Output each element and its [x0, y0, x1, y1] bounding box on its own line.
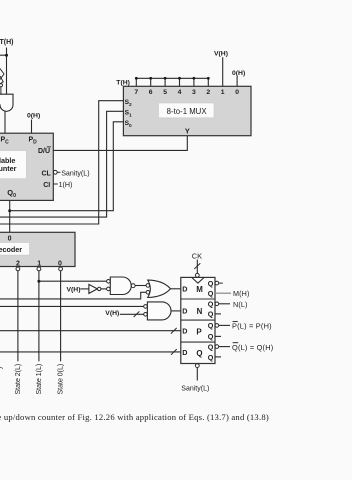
wire sanity: [196, 368, 198, 381]
node Sanity(L) label: [181, 386, 209, 393]
wire T(H) bus to pins 7-2: [135, 78, 208, 86]
wire S1 select (goes off left): [0, 111, 123, 217]
wire from left to D of Q with slash: [0, 349, 181, 355]
bubble on Q upper Q and wire to Q(L)=Q(H): [215, 343, 273, 352]
decoder output pin 2: [16, 260, 20, 267]
node dots on T bus: [135, 77, 210, 80]
wire NAND G2 to OR G3: [135, 285, 146, 287]
flip-flop stack box: [181, 277, 215, 363]
pin S0: [125, 120, 132, 129]
pin Q of M lower: [208, 289, 214, 298]
wire M lower Q to M(H): [215, 289, 250, 298]
svg-text:P: P: [196, 328, 201, 337]
wire S2 select (goes off left): [0, 101, 123, 224]
node junction dot on T(H) wire: [5, 54, 8, 57]
wire CK with slash: [194, 260, 200, 274]
OR gate G3 (bubbled inputs): [146, 280, 170, 297]
pin D of P: [182, 327, 187, 336]
svg-text:M: M: [196, 285, 203, 294]
svg-text:Sanity(L): Sanity(L): [181, 386, 209, 393]
flip-flop M label: [196, 285, 203, 294]
pin 5: [163, 89, 167, 96]
node V(H) label at inverter: [67, 287, 81, 294]
pin D of M: [182, 284, 187, 293]
wire S0 select to Q0 junction: [10, 122, 124, 211]
wire P lower Q stub: [215, 335, 221, 337]
pin 4: [178, 89, 182, 96]
bubble on CL: [53, 170, 57, 174]
svg-text:Q: Q: [208, 353, 214, 362]
svg-text:D: D: [182, 284, 187, 293]
pin 0: [235, 89, 239, 96]
node junction dot Q0/S0: [8, 209, 11, 212]
node 0(H) label: [27, 113, 40, 120]
wire Q lower Q stub: [215, 356, 221, 358]
pin Q of Q lower: [208, 353, 214, 362]
wire state1 to NAND G2 upper input: [39, 280, 107, 282]
pin D/U: [38, 147, 51, 155]
wire 0(H) to pin 0: [236, 76, 238, 86]
wire state 0(L): [60, 271, 62, 361]
svg-text:Q: Q: [208, 342, 214, 351]
node 0(H) label at mux: [232, 70, 245, 77]
counter white label area: [0, 151, 26, 179]
pin CL: [42, 170, 52, 177]
clipped gate fragment at left edge: [0, 69, 4, 87]
node clipped label fragment at left edge: [0, 367, 4, 369]
mux U2 box 8-to-1 MUX: [123, 86, 251, 135]
pin S2: [125, 99, 132, 108]
bubble on M upper Q: [215, 281, 223, 285]
decoder U3 box (clipped at left): [0, 232, 75, 266]
svg-text:CK: CK: [192, 252, 202, 261]
pin Q0: [7, 188, 16, 199]
pin Q of P upper: [208, 321, 214, 330]
wire G4 output to D of N: [171, 310, 181, 312]
node 1(H) at CI: [53, 181, 72, 189]
AND gate G4 (bubbled inputs): [144, 302, 171, 320]
svg-text:Q: Q: [208, 332, 214, 341]
svg-text:N(L): N(L): [233, 300, 248, 309]
wire V(H) to pin 1: [222, 57, 224, 86]
pin PD: [29, 137, 38, 146]
svg-text:D: D: [182, 306, 187, 315]
mux white label: [159, 103, 215, 118]
decoder output pin 0: [58, 260, 62, 267]
wire state 1(L): [38, 271, 40, 361]
wire from left to G3 lower input: [0, 292, 146, 299]
bubble sanity reset input: [195, 364, 199, 368]
svg-text:P(L) = P(H): P(L) = P(H): [232, 322, 272, 331]
svg-text:D: D: [182, 327, 187, 336]
wire Y output to counter D/U: [53, 136, 187, 151]
wire N lower Q stub: [215, 313, 221, 315]
wire from left to D of P with slash: [0, 328, 181, 334]
wire G3 output to D of M: [170, 288, 181, 290]
pin Q of Q upper: [208, 342, 214, 351]
svg-text:Q: Q: [208, 310, 214, 319]
pin 1: [221, 89, 225, 96]
node State 0(L) label: [57, 364, 64, 395]
svg-text:Q: Q: [208, 300, 214, 309]
pin Q of P lower: [208, 332, 214, 341]
wire V(H) to G4 lower input with slash: [120, 311, 144, 317]
pin 7: [134, 89, 138, 96]
pin Q of M upper: [208, 279, 214, 288]
svg-text:N: N: [197, 307, 203, 316]
flip-flop N label: [197, 307, 203, 316]
node CK label: [192, 252, 202, 261]
AND gate G1 (clipped at left): [0, 87, 13, 112]
wire from left to G4 upper input: [0, 305, 144, 307]
decoder input pin 0: [8, 235, 12, 242]
svg-text:Q: Q: [208, 321, 214, 330]
wire state 2(L): [17, 271, 19, 361]
svg-text:Q: Q: [208, 289, 214, 298]
node T(H) label at mux: [116, 79, 130, 86]
wire V(H) to inverter: [80, 288, 89, 290]
wire inverter to NAND G2: [101, 288, 107, 290]
node Sanity(L) at CL: [57, 169, 89, 177]
pin 2: [206, 89, 210, 96]
NAND gate G2: [107, 277, 136, 295]
flip-flop P label: [196, 328, 201, 337]
node State 1(L) label: [36, 364, 43, 395]
pin D of Q: [182, 348, 187, 357]
clock chevron indicator: [192, 278, 204, 284]
svg-text:Q: Q: [196, 349, 202, 358]
pin Y: [185, 127, 190, 136]
figure caption: [0, 412, 269, 422]
node T(H) label top-left: [0, 39, 14, 46]
svg-text:D: D: [182, 348, 187, 357]
wire Q0 to decoder input: [9, 200, 11, 232]
wire G1 output to counter PC: [4, 111, 6, 133]
pin S1: [125, 110, 132, 119]
bubble on N upper Q and wire to N(L): [215, 300, 247, 309]
wire T(H) from left edge: [0, 48, 7, 95]
node V(H) label at G4: [105, 310, 119, 317]
pin D of N: [182, 306, 187, 315]
node junction dot on state 1 wire: [37, 280, 40, 283]
svg-text:e up/down counter of Fig. 12.2: e up/down counter of Fig. 12.26 with app…: [0, 412, 269, 422]
bubble on decoder output 1: [37, 267, 41, 271]
bubble on clock input: [195, 273, 199, 277]
bubble on decoder output 2: [16, 267, 20, 271]
pin Q of N lower: [208, 310, 214, 319]
bubble on P upper Q and wire to P(L)=P(H): [215, 322, 272, 331]
node State 2(L) label: [15, 364, 22, 395]
svg-text:Q(L) = Q(H): Q(L) = Q(H): [232, 343, 273, 352]
counter U1 box (clipped at left): [0, 133, 53, 200]
svg-text:M(H): M(H): [233, 289, 250, 298]
decoder white label: [0, 243, 30, 256]
svg-text:Q: Q: [208, 279, 214, 288]
pin 6: [149, 89, 153, 96]
node V(H) label: [214, 50, 228, 57]
pin 3: [192, 89, 196, 96]
inverter G5: [89, 284, 101, 293]
flip-flop Q label: [196, 349, 202, 358]
decoder output pin 1: [37, 260, 41, 267]
wire 0(H) to PD: [31, 120, 33, 134]
pin Q of N upper: [208, 300, 214, 309]
pin CI: [43, 182, 50, 189]
bubble on decoder output 0: [59, 267, 63, 271]
pin PC: [1, 137, 10, 146]
